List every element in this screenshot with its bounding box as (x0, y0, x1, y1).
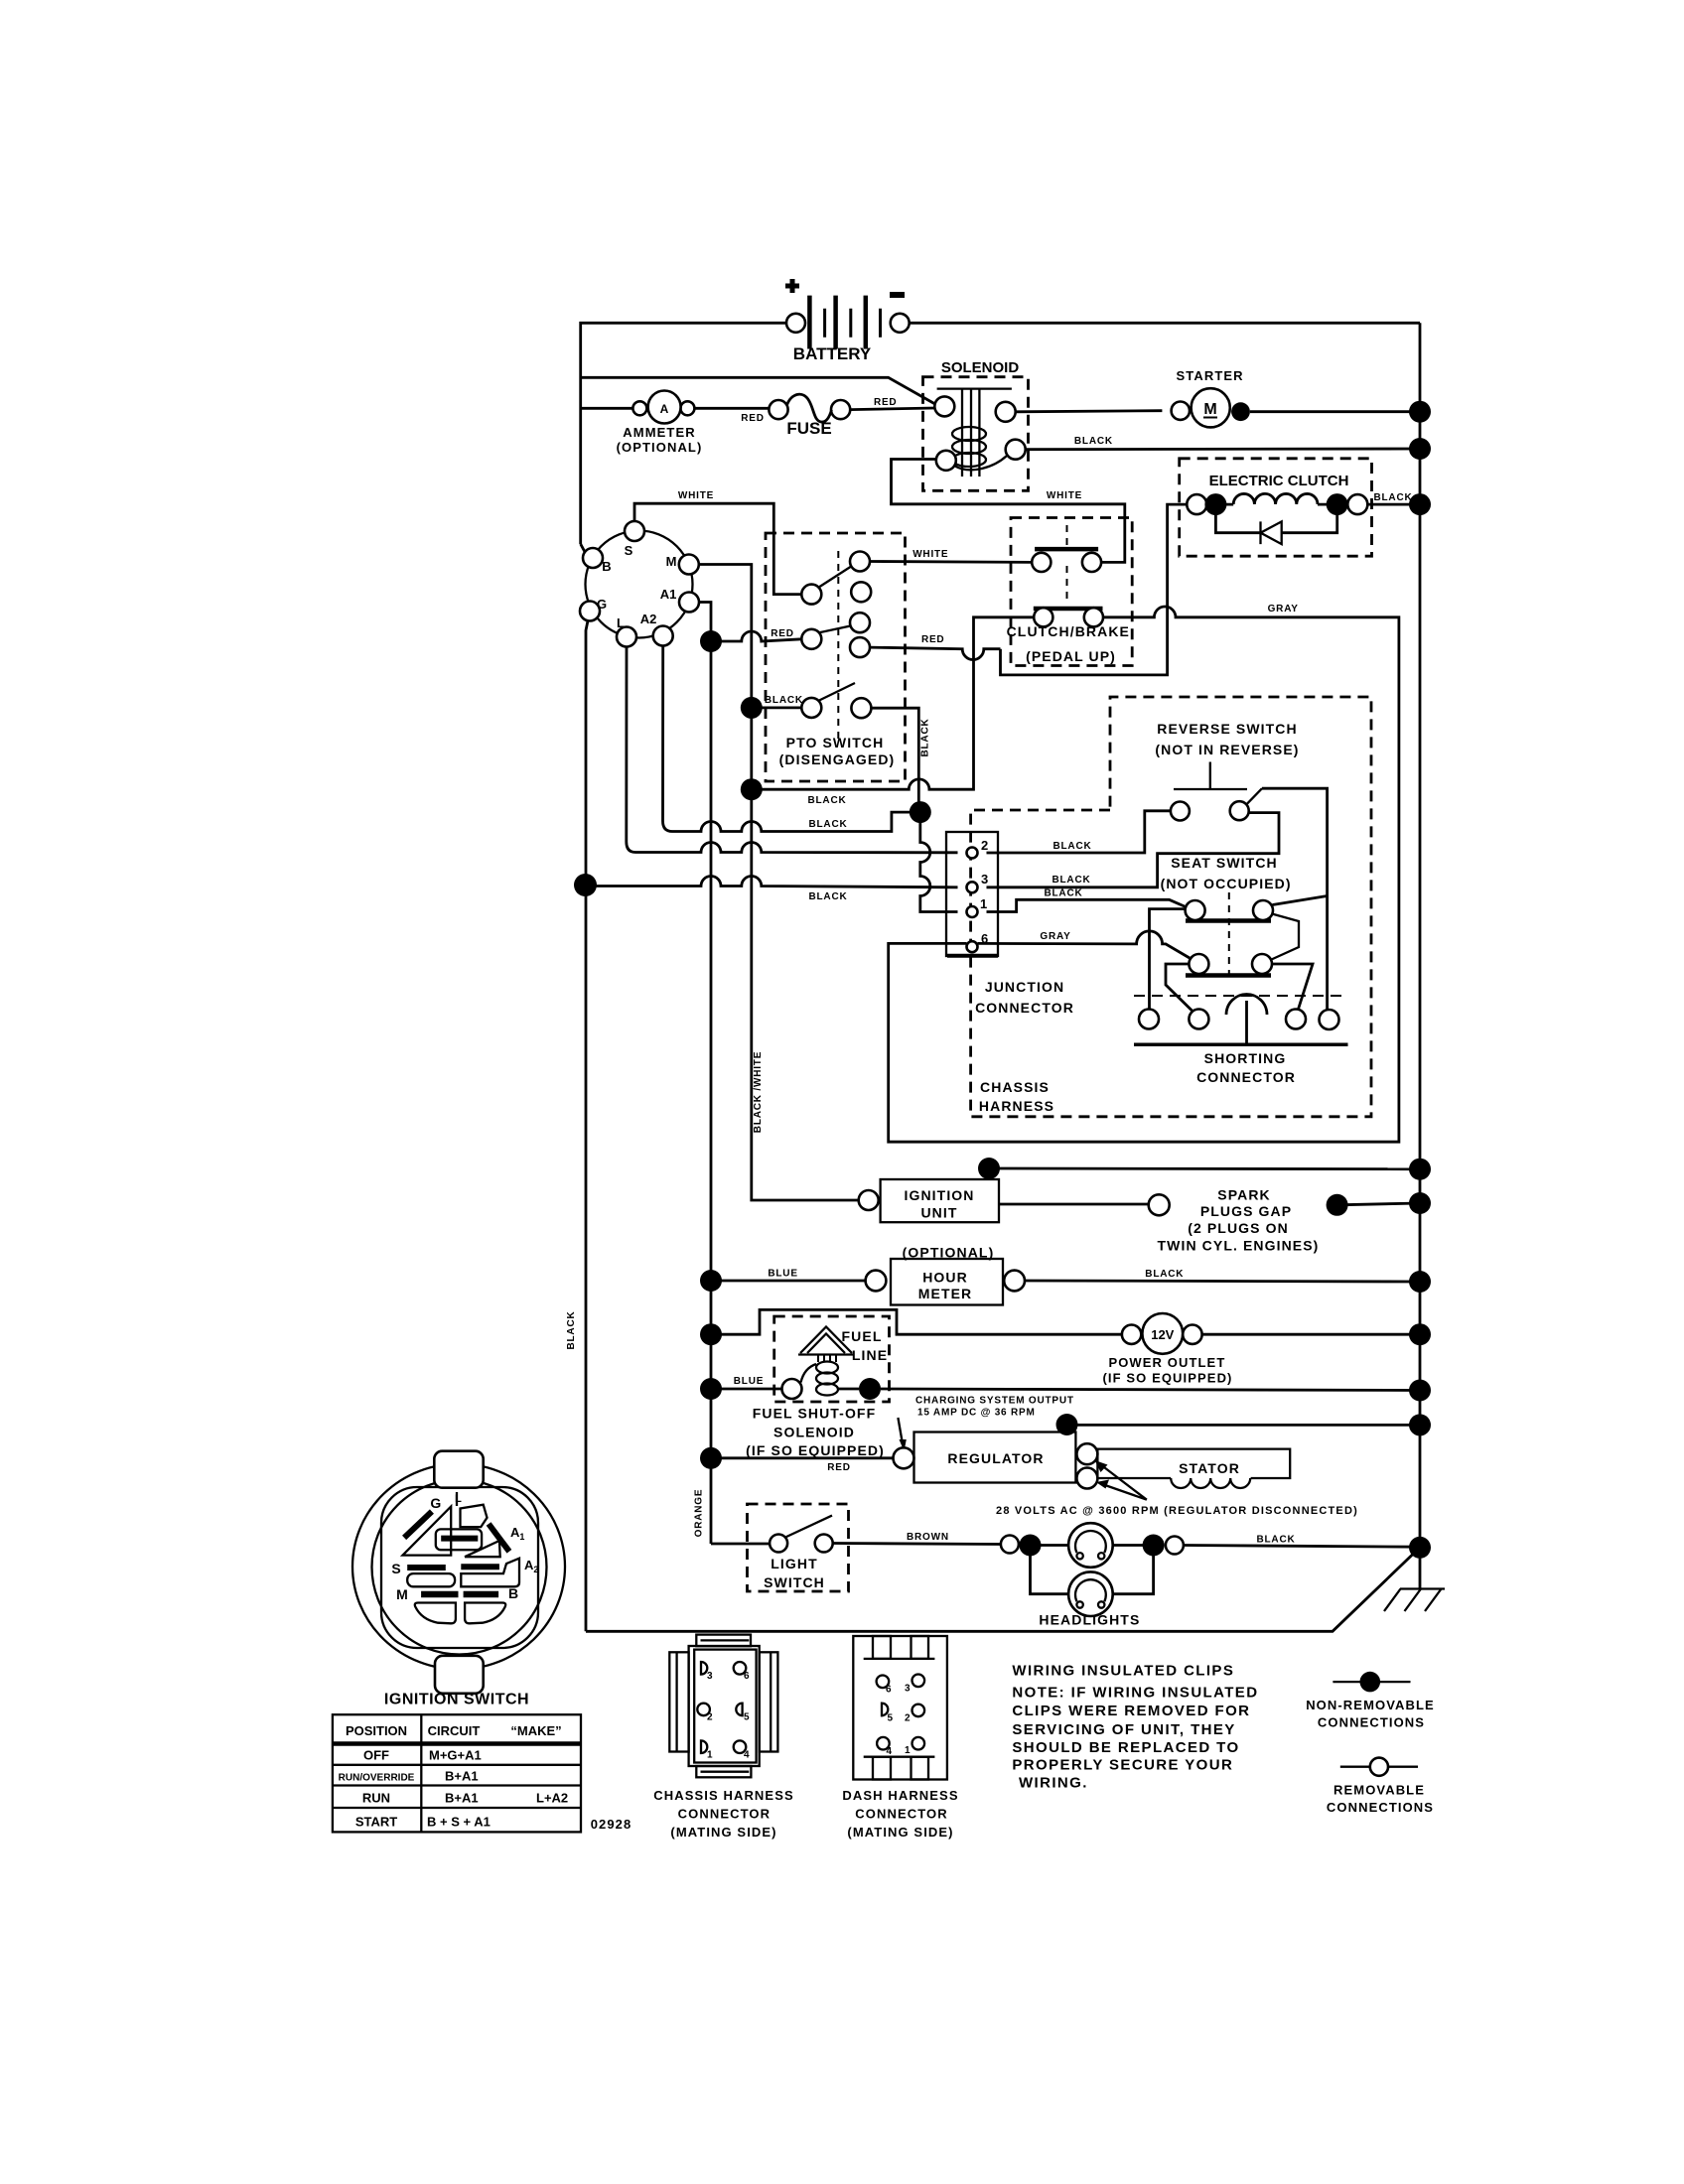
wire: pin1 to seat switch upper-left (987, 899, 1187, 911)
svg-text:ELECTRIC CLUTCH: ELECTRIC CLUTCH (1209, 473, 1349, 489)
svg-text:CONNECTOR: CONNECTOR (678, 1807, 771, 1822)
svg-text:WHITE: WHITE (1047, 490, 1082, 501)
fuel solenoid coil (816, 1362, 838, 1374)
svg-text:1: 1 (707, 1750, 713, 1761)
svg-text:GRAY: GRAY (1268, 604, 1299, 614)
ammeter A (optional) (617, 391, 703, 456)
svg-text:(IF SO EQUIPPED): (IF SO EQUIPPED) (746, 1442, 885, 1458)
svg-text:CONNECTOR: CONNECTOR (855, 1807, 947, 1822)
svg-text:3: 3 (905, 1684, 911, 1695)
wire: A1 node to PTO red common (hop over M line) (711, 631, 801, 641)
svg-text:(NOT IN REVERSE): (NOT IN REVERSE) (1155, 742, 1299, 757)
svg-text:S: S (625, 543, 633, 558)
clutch coil (1224, 493, 1327, 504)
svg-text:3: 3 (981, 872, 988, 887)
svg-text:CHARGING SYSTEM OUTPUT: CHARGING SYSTEM OUTPUT (915, 1396, 1074, 1407)
svg-text:START: START (355, 1815, 397, 1830)
wire: starter to right bus (1250, 410, 1420, 413)
chassis harness connector (653, 1635, 793, 1840)
svg-text:CONNECTIONS: CONNECTIONS (1318, 1715, 1425, 1730)
wire: battery top loop (581, 323, 1420, 544)
solenoid (dashed box) (923, 359, 1029, 490)
12V power outlet (1102, 1313, 1431, 1386)
ignition switch table (333, 1714, 581, 1832)
svg-text:A2: A2 (640, 612, 657, 626)
svg-text:BLUE: BLUE (768, 1269, 797, 1280)
headlight 2 (lower) (1031, 1546, 1154, 1628)
junction connector (946, 832, 1074, 1016)
wire: G row to pin3 (hops) (586, 877, 958, 887)
svg-text:5: 5 (744, 1712, 750, 1723)
svg-text:4: 4 (887, 1746, 893, 1757)
wire: pto red out (under-hop) (870, 647, 1001, 659)
svg-text:OFF: OFF (363, 1748, 389, 1763)
svg-text:CONNECTIONS: CONNECTIONS (1327, 1800, 1434, 1815)
svg-text:CIRCUIT: CIRCUIT (428, 1723, 481, 1738)
wire: gray from clutch/brake (hop) to right inner bus (889, 607, 1399, 1142)
charging system note + arrow (898, 1396, 1073, 1452)
svg-text:BLACK: BLACK (1074, 436, 1113, 447)
seat left to shorting pin1 (1150, 909, 1186, 1010)
svg-text:LINE: LINE (852, 1347, 888, 1363)
svg-text:WIRING.: WIRING. (1019, 1775, 1088, 1792)
svg-text:L+A2: L+A2 (536, 1791, 568, 1806)
svg-text:RUN: RUN (362, 1791, 390, 1806)
svg-text:WIRING INSULATED CLIPS: WIRING INSULATED CLIPS (1012, 1663, 1234, 1680)
bottom boundary (586, 1548, 1420, 1632)
svg-text:BLACK: BLACK (1045, 888, 1083, 899)
svg-text:REVERSE SWITCH: REVERSE SWITCH (1157, 721, 1297, 737)
svg-text:BLACK: BLACK (809, 819, 848, 830)
svg-text:HARNESS: HARNESS (979, 1098, 1054, 1114)
legend: removable connections (1327, 1758, 1434, 1815)
svg-text:RED: RED (874, 397, 898, 408)
svg-text:BLACK: BLACK (1374, 492, 1413, 503)
svg-text:BLACK: BLACK (566, 1311, 577, 1350)
solenoid terminals (934, 396, 954, 416)
svg-text:HEADLIGHTS: HEADLIGHTS (1039, 1612, 1140, 1628)
svg-text:FUEL: FUEL (842, 1328, 883, 1344)
svg-text:SOLENOID: SOLENOID (773, 1425, 855, 1440)
svg-text:DASH HARNESS: DASH HARNESS (842, 1788, 958, 1803)
svg-text:ORANGE: ORANGE (694, 1489, 705, 1538)
svg-text:6: 6 (981, 931, 988, 946)
svg-text:WHITE: WHITE (678, 490, 714, 501)
svg-text:B: B (508, 1585, 518, 1601)
svg-text:METER: METER (918, 1286, 973, 1301)
svg-text:SHOULD BE REPLACED TO: SHOULD BE REPLACED TO (1012, 1739, 1239, 1756)
battery B1 (785, 279, 910, 363)
svg-text:BLUE: BLUE (734, 1376, 764, 1387)
svg-text:(NOT OCCUPIED): (NOT OCCUPIED) (1161, 876, 1292, 891)
terminals (701, 1662, 707, 1675)
svg-text:SHORTING: SHORTING (1204, 1050, 1287, 1066)
dash harness connector (842, 1636, 958, 1840)
wiring insulated clips note (1012, 1663, 1258, 1792)
svg-text:B + S + A1: B + S + A1 (427, 1815, 491, 1830)
pto middle switch (801, 629, 821, 649)
svg-text:(2 PLUGS ON: (2 PLUGS ON (1188, 1220, 1289, 1236)
svg-text:BROWN: BROWN (907, 1532, 949, 1543)
svg-text:“MAKE”: “MAKE” (510, 1723, 561, 1738)
svg-text:RED: RED (741, 413, 765, 424)
svg-text:(OPTIONAL): (OPTIONAL) (617, 440, 703, 455)
wire: solenoid lower-left white loop (892, 460, 1125, 563)
thick contact bars (404, 1512, 432, 1538)
svg-text:NON-REMOVABLE: NON-REMOVABLE (1306, 1698, 1435, 1712)
svg-text:BLACK: BLACK (1145, 1269, 1184, 1280)
wire: pto black common to M-line node (752, 707, 802, 710)
regulator (700, 1414, 1431, 1489)
svg-text:REGULATOR: REGULATOR (947, 1450, 1044, 1466)
wire: solenoid to starter (1016, 411, 1163, 412)
svg-text:02928: 02928 (591, 1817, 632, 1832)
wire: solenoid black to right bus (1026, 448, 1420, 452)
svg-text:IGNITION SWITCH: IGNITION SWITCH (384, 1692, 529, 1708)
svg-text:UNIT: UNIT (920, 1205, 957, 1221)
svg-text:B+A1: B+A1 (445, 1769, 479, 1784)
ignition unit (859, 1158, 1000, 1222)
svg-text:GRAY: GRAY (1040, 931, 1070, 942)
wire: M down (black/white) (699, 565, 859, 1201)
svg-text:CHASSIS: CHASSIS (980, 1079, 1050, 1095)
svg-text:M+G+A1: M+G+A1 (429, 1748, 482, 1763)
wire: pin6 gray to seat switch lower-left (hop) (978, 931, 1191, 958)
svg-text:3: 3 (707, 1671, 713, 1682)
svg-text:LIGHT: LIGHT (771, 1556, 818, 1571)
svg-text:BLACK /WHITE: BLACK /WHITE (753, 1051, 764, 1133)
svg-text:SERVICING OF UNIT, THEY: SERVICING OF UNIT, THEY (1012, 1721, 1235, 1738)
wire: reverse blade to seat upper-right and shorting pin5 (1262, 788, 1328, 1010)
svg-text:BLACK: BLACK (1052, 875, 1091, 886)
wire: node down to pin1 (hops) (920, 812, 958, 911)
svg-text:HOUR: HOUR (922, 1270, 968, 1286)
svg-text:A1: A1 (660, 587, 677, 602)
hour meter (optional) (700, 1245, 1431, 1305)
wire: pin2 to reverse switch left (987, 811, 1171, 853)
pto switch (dashed box) (766, 533, 906, 781)
fuel line (dashed box) + fuel shut-off solenoid (700, 1316, 1431, 1458)
svg-text:BATTERY: BATTERY (793, 344, 872, 363)
shorting connector (1134, 994, 1348, 1085)
legend: non-removable connections (1306, 1672, 1435, 1730)
terminals (877, 1676, 890, 1689)
reverse switch (1155, 721, 1299, 821)
svg-text:5: 5 (888, 1713, 894, 1724)
svg-text:REMOVABLE: REMOVABLE (1333, 1783, 1425, 1798)
svg-text:PLUGS GAP: PLUGS GAP (1200, 1203, 1292, 1219)
svg-text:PTO SWITCH: PTO SWITCH (786, 735, 885, 751)
svg-text:FUEL SHUT-OFF: FUEL SHUT-OFF (753, 1406, 876, 1422)
svg-text:RED: RED (921, 634, 945, 645)
svg-text:B+A1: B+A1 (445, 1791, 479, 1806)
solenoid blade (954, 456, 1007, 470)
svg-text:BLACK: BLACK (809, 891, 848, 902)
wire: ignition unit top to right bus (989, 1167, 1420, 1170)
svg-text:CONNECTOR: CONNECTOR (975, 1000, 1074, 1016)
svg-text:(MATING SIDE): (MATING SIDE) (847, 1825, 953, 1840)
svg-text:G: G (430, 1495, 441, 1511)
svg-text:(MATING SIDE): (MATING SIDE) (670, 1825, 776, 1840)
seat blade right (1272, 914, 1300, 960)
wire: A1 down with node (699, 603, 711, 1545)
stator (996, 1449, 1358, 1517)
svg-text:1: 1 (905, 1745, 911, 1756)
svg-text:RED: RED (827, 1462, 851, 1473)
node dots on right bus (1409, 401, 1431, 423)
svg-text:CONNECTOR: CONNECTOR (1196, 1069, 1296, 1085)
svg-text:CHASSIS HARNESS: CHASSIS HARNESS (653, 1788, 793, 1803)
svg-text:RED: RED (771, 628, 794, 639)
headlight 1 (1031, 1523, 1113, 1568)
svg-text:SEAT SWITCH: SEAT SWITCH (1171, 855, 1278, 871)
wire: pto white out (870, 560, 1032, 564)
wire: ammeter row (581, 408, 935, 410)
fuel solenoid tent (798, 1327, 854, 1355)
wire: brown to headlights (833, 1544, 1001, 1545)
svg-text:B: B (602, 559, 611, 574)
svg-text:STATOR: STATOR (1179, 1460, 1240, 1476)
svg-text:S: S (391, 1561, 400, 1576)
wire: pto black contact down (871, 708, 918, 812)
svg-text:BLACK: BLACK (1257, 1535, 1296, 1546)
svg-text:1: 1 (980, 896, 987, 911)
svg-text:2: 2 (707, 1712, 713, 1723)
key pattern (456, 1492, 458, 1506)
seat lower-left to shorting pin2 (1166, 964, 1193, 1012)
ignition switch drawing (352, 1451, 565, 1694)
wire: L down to pin2 wire (627, 647, 958, 853)
svg-text:6: 6 (886, 1685, 892, 1696)
fuel solenoid plunger (818, 1355, 836, 1362)
svg-text:SPARK: SPARK (1217, 1187, 1270, 1203)
seat lower-right to shorting pin4 (1272, 964, 1313, 1010)
svg-text:2: 2 (905, 1713, 911, 1724)
svg-text:A: A (660, 402, 669, 416)
wire: pin3 to reverse switch right (987, 813, 1280, 887)
svg-text:TWIN CYL. ENGINES): TWIN CYL. ENGINES) (1158, 1238, 1320, 1254)
wire: 12V row with step over fuel box (700, 1323, 722, 1345)
electric clutch (dashed box) (1180, 459, 1372, 556)
svg-text:M: M (396, 1586, 408, 1602)
svg-text:CLUTCH/BRAKE: CLUTCH/BRAKE (1007, 623, 1130, 639)
light switch (dashed box) (694, 1489, 849, 1591)
wire: A2 down to black wire (663, 646, 920, 832)
starter M (1172, 368, 1250, 427)
svg-text:AMMETER: AMMETER (623, 425, 695, 440)
clutch/brake (dashed box) (1007, 518, 1133, 666)
svg-text:SOLENOID: SOLENOID (941, 359, 1020, 376)
svg-text:BLACK: BLACK (765, 695, 803, 706)
svg-text:FUSE: FUSE (786, 419, 831, 438)
svg-text:M: M (666, 554, 677, 569)
wire: clutch left feed vertical (1001, 504, 1188, 675)
svg-text:12V: 12V (1151, 1327, 1174, 1342)
right bus vertical (1419, 323, 1422, 1548)
svg-text:BLACK: BLACK (1053, 841, 1092, 852)
svg-text:BLACK: BLACK (808, 795, 847, 806)
wire: G down (586, 620, 588, 1631)
svg-text:IGNITION: IGNITION (904, 1187, 974, 1203)
wire: black row from M node to clutch/brake (752, 617, 1034, 789)
svg-text:NOTE: IF WIRING INSULATED: NOTE: IF WIRING INSULATED (1012, 1685, 1258, 1702)
pto top switch (801, 585, 821, 605)
chassis harness dashed outline (with reverse switch box) (971, 697, 1371, 1117)
seat switch (1150, 855, 1314, 1012)
wire: B to left feed (581, 544, 585, 552)
svg-text:POSITION: POSITION (346, 1723, 407, 1738)
svg-text:2: 2 (981, 838, 988, 853)
svg-text:(IF SO EQUIPPED): (IF SO EQUIPPED) (1102, 1371, 1232, 1386)
pto bottom switch (801, 698, 821, 718)
fuse F1 (769, 394, 850, 438)
stator arrows (1100, 1464, 1147, 1500)
svg-text:SWITCH: SWITCH (764, 1574, 825, 1590)
spark plugs (999, 1187, 1431, 1254)
svg-text:STARTER: STARTER (1177, 368, 1244, 383)
svg-text:4: 4 (744, 1750, 750, 1761)
svg-text:WHITE: WHITE (912, 549, 948, 560)
svg-text:JUNCTION: JUNCTION (985, 979, 1064, 995)
svg-text:L: L (617, 615, 625, 630)
svg-text:G: G (597, 597, 607, 612)
clutch diode branch (1215, 512, 1336, 533)
svg-text:28 VOLTS AC @ 3600 RPM (REGULA: 28 VOLTS AC @ 3600 RPM (REGULATOR DISCON… (996, 1505, 1358, 1517)
wire: S white to PTO (634, 503, 801, 594)
svg-text:15 AMP DC @ 36 RPM: 15 AMP DC @ 36 RPM (917, 1408, 1036, 1419)
svg-text:L: L (455, 1493, 462, 1505)
ground (1384, 1548, 1445, 1611)
node: A2/PTO junction (910, 801, 931, 823)
svg-text:M: M (1203, 401, 1216, 418)
svg-text:(DISENGAGED): (DISENGAGED) (779, 751, 896, 767)
svg-text:CLIPS WERE REMOVED FOR: CLIPS WERE REMOVED FOR (1012, 1703, 1250, 1719)
wire: clutch to right bus (1367, 503, 1420, 506)
svg-text:POWER OUTLET: POWER OUTLET (1108, 1355, 1225, 1370)
svg-text:RUN/OVERRIDE: RUN/OVERRIDE (339, 1773, 415, 1784)
ignition switch (schematic) (580, 521, 699, 647)
svg-text:6: 6 (744, 1671, 750, 1682)
svg-text:BLACK: BLACK (920, 719, 931, 757)
solenoid coil (952, 427, 986, 441)
svg-text:(PEDAL UP): (PEDAL UP) (1026, 648, 1116, 664)
svg-text:PROPERLY SECURE YOUR: PROPERLY SECURE YOUR (1012, 1757, 1233, 1774)
